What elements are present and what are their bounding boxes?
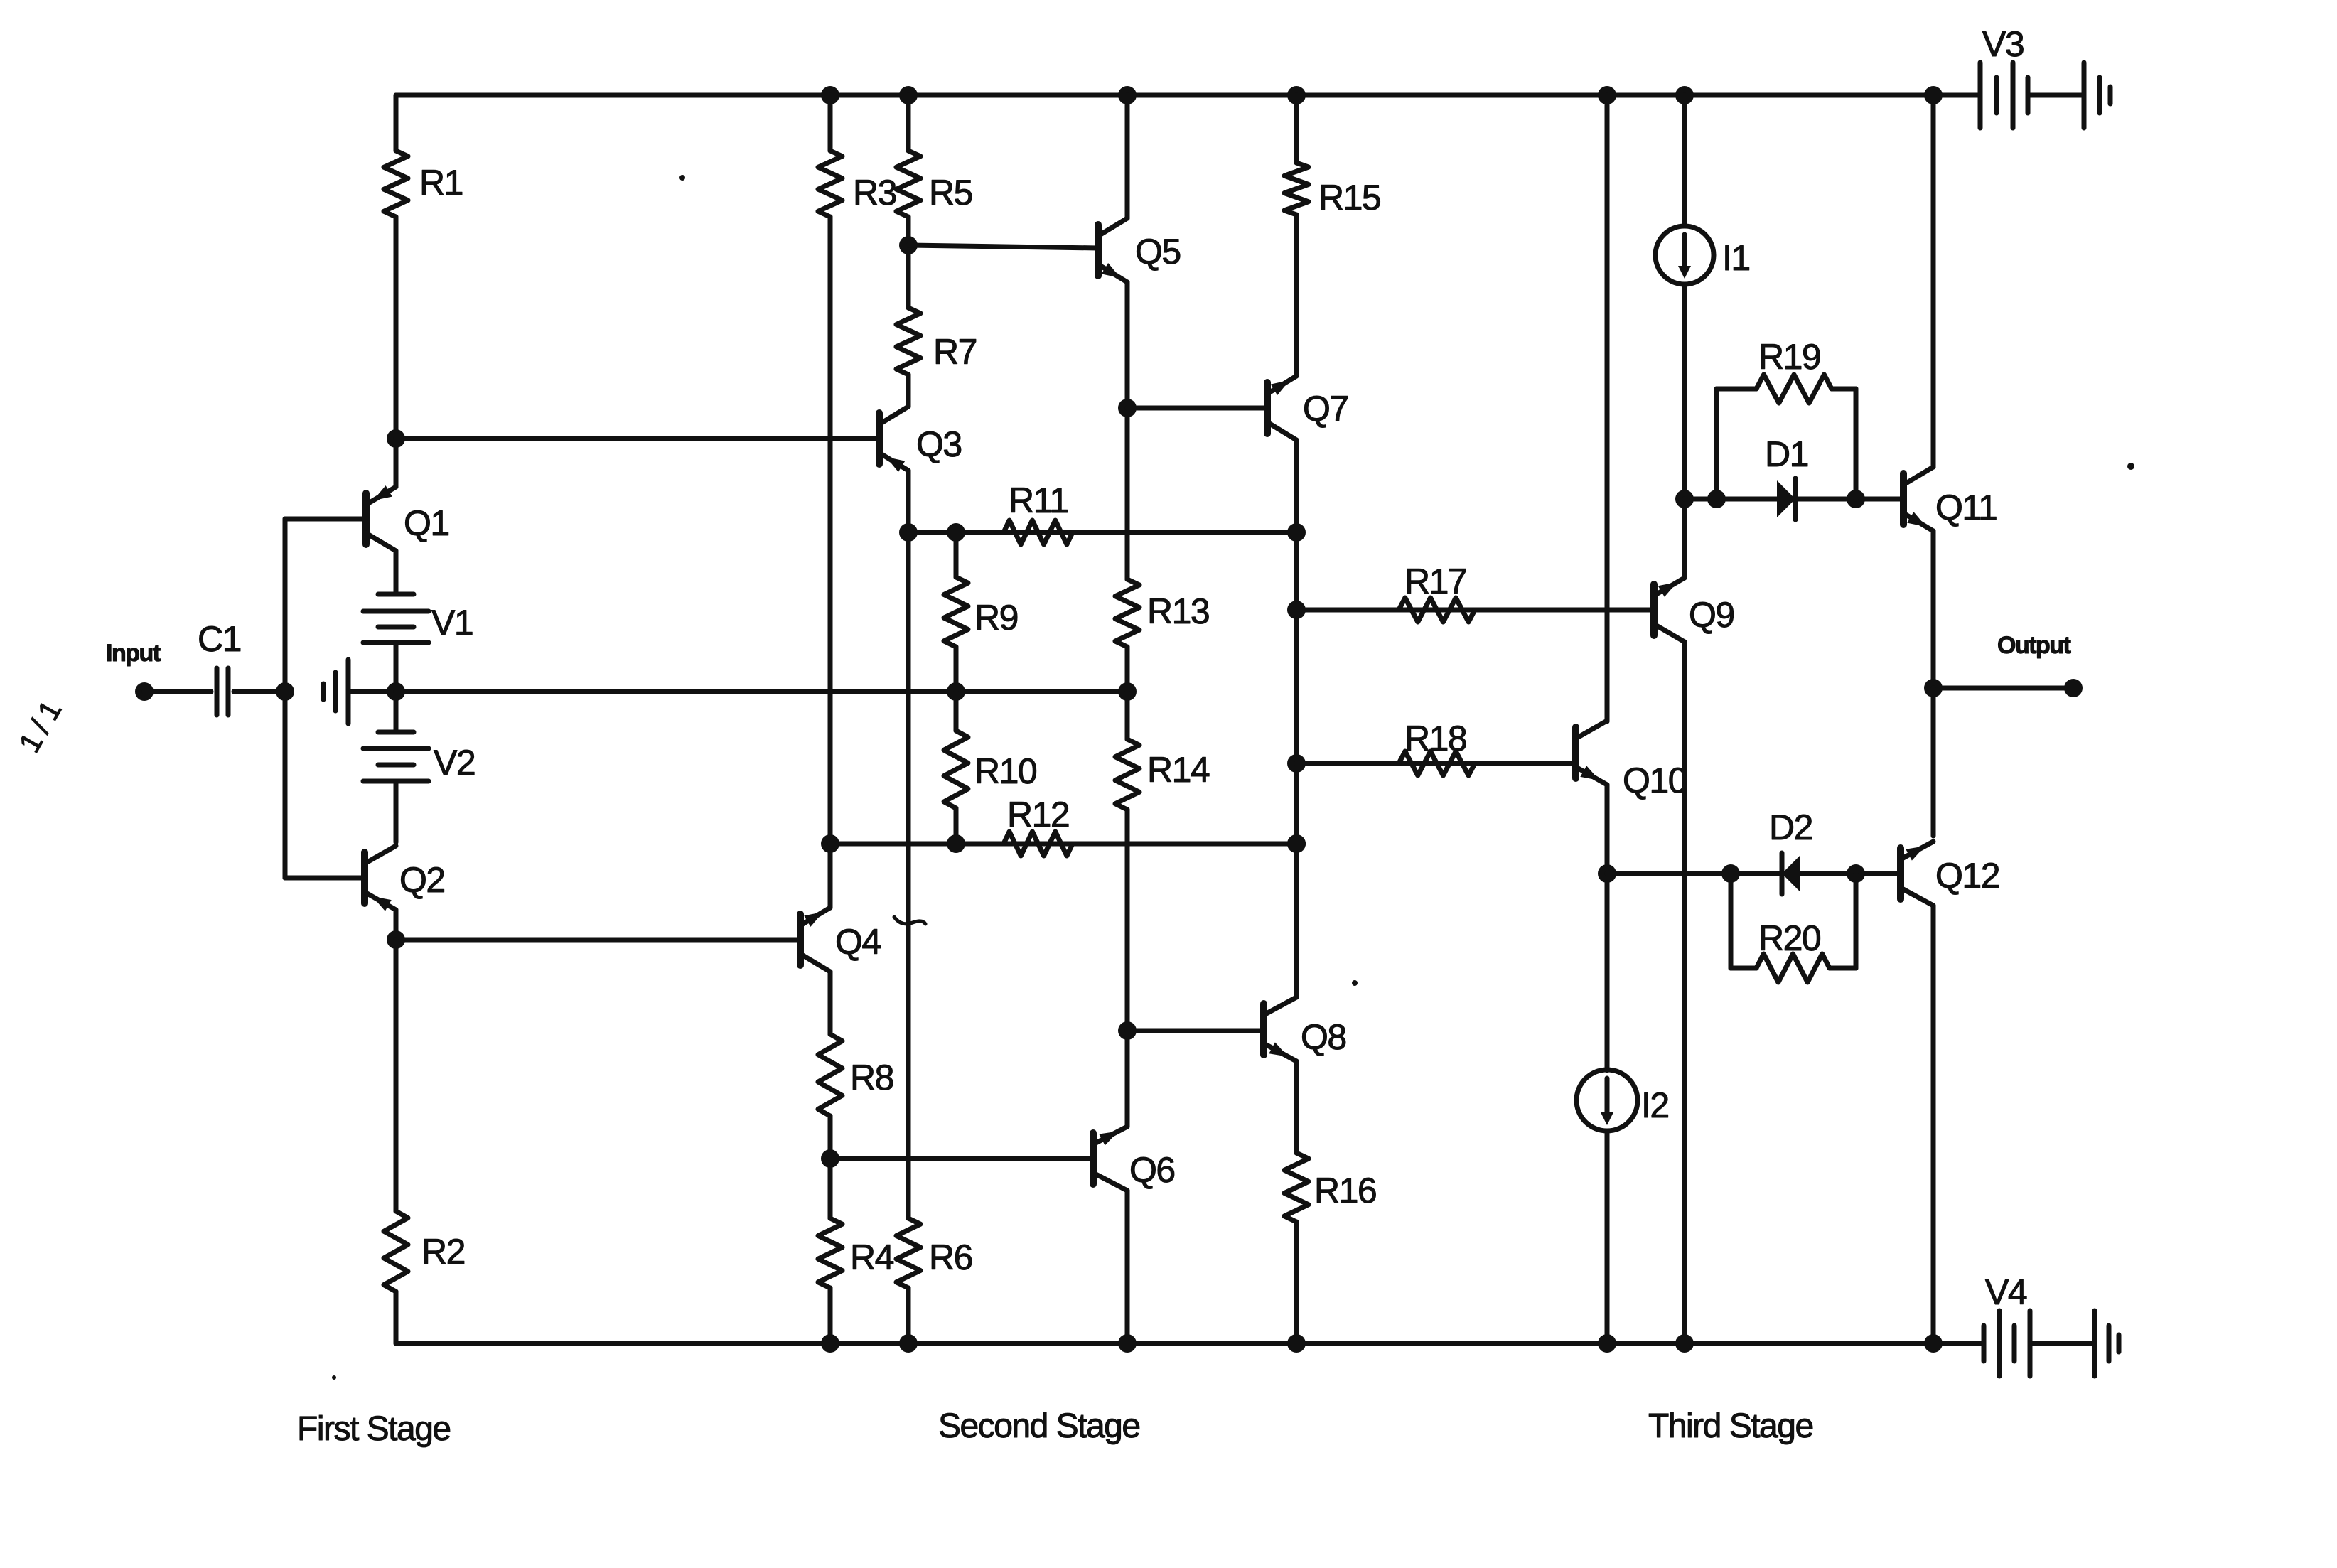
svg-text:I2: I2	[1641, 1085, 1669, 1125]
svg-text:Q3: Q3	[916, 424, 962, 464]
svg-text:Input: Input	[106, 640, 161, 667]
svg-text:Q4: Q4	[835, 922, 881, 962]
svg-text:V4: V4	[1985, 1272, 2027, 1312]
svg-text:C1: C1	[198, 619, 241, 659]
svg-text:Q2: Q2	[399, 860, 445, 900]
svg-text:Q1: Q1	[404, 503, 449, 543]
svg-text:Q12: Q12	[1935, 856, 1999, 896]
svg-text:Output: Output	[1997, 632, 2071, 659]
svg-text:R20: R20	[1758, 918, 1820, 958]
svg-text:R10: R10	[974, 751, 1036, 791]
svg-text:Third Stage: Third Stage	[1648, 1407, 1813, 1445]
svg-text:R12: R12	[1007, 795, 1069, 834]
svg-text:R13: R13	[1147, 591, 1209, 631]
svg-text:V3: V3	[1982, 24, 2024, 64]
svg-text:R3: R3	[853, 173, 896, 213]
svg-text:R17: R17	[1404, 562, 1466, 601]
svg-text:R19: R19	[1758, 337, 1820, 377]
svg-text:Q9: Q9	[1689, 595, 1734, 635]
svg-text:First Stage: First Stage	[297, 1410, 451, 1448]
svg-text:R9: R9	[974, 598, 1018, 638]
svg-text:Q6: Q6	[1129, 1150, 1175, 1190]
svg-text:R14: R14	[1147, 750, 1210, 790]
svg-text:Q5: Q5	[1135, 232, 1181, 272]
svg-text:R18: R18	[1404, 719, 1466, 758]
svg-text:D2: D2	[1769, 807, 1812, 847]
svg-text:R5: R5	[929, 173, 972, 213]
svg-text:R4: R4	[850, 1237, 894, 1277]
svg-text:D1: D1	[1765, 434, 1808, 474]
svg-text:R1: R1	[419, 163, 463, 203]
svg-text:Q10: Q10	[1623, 761, 1687, 800]
svg-text:Q11: Q11	[1935, 488, 1997, 527]
svg-text:V2: V2	[434, 743, 475, 783]
svg-text:I1: I1	[1722, 238, 1750, 278]
svg-text:R15: R15	[1318, 178, 1380, 218]
svg-text:R7: R7	[933, 332, 977, 372]
svg-text:R2: R2	[421, 1232, 465, 1272]
svg-text:Q8: Q8	[1301, 1017, 1346, 1057]
svg-text:R16: R16	[1314, 1171, 1376, 1210]
svg-text:V1: V1	[431, 603, 473, 643]
svg-text:R6: R6	[929, 1237, 972, 1277]
svg-text:1 / 1: 1 / 1	[12, 696, 68, 758]
svg-text:R8: R8	[850, 1058, 893, 1097]
svg-text:Second Stage: Second Stage	[938, 1407, 1140, 1445]
svg-text:R11: R11	[1009, 480, 1068, 520]
svg-text:Q7: Q7	[1303, 389, 1348, 429]
